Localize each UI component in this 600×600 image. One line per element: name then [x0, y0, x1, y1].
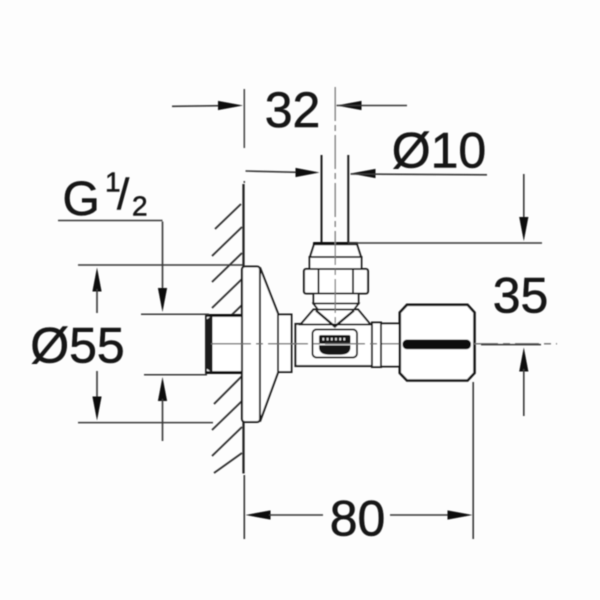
dimension 32 [172, 82, 407, 138]
nut taper [314, 304, 359, 310]
horizontal centerline left/body [211, 343, 399, 345]
svg-text:35: 35 [493, 268, 549, 324]
dimension 35 [348, 174, 548, 416]
rosette flange [242, 267, 260, 423]
handle neck [381, 324, 400, 367]
G1/2 up arrow [158, 377, 167, 441]
valve body [296, 324, 373, 366]
knob groove band [403, 340, 472, 350]
G1/2 thread top extension [141, 313, 209, 315]
G1/2 leader line [58, 221, 163, 293]
vertical centerline [334, 87, 336, 328]
G1/2 down arrow [158, 288, 167, 312]
svg-text:80: 80 [330, 491, 386, 547]
G1/2 thread bottom extension [144, 374, 207, 376]
handle knob [400, 305, 475, 381]
wall [212, 204, 242, 473]
wall face line [242, 184, 244, 474]
fitting ring [310, 257, 362, 269]
nut lower band [314, 294, 359, 304]
dimension 32 extension line (dashed, wall face plane) [243, 89, 245, 183]
horizontal centerline right of knob [474, 343, 557, 345]
valve seat V [316, 311, 354, 327]
dimension 80 [244, 382, 473, 547]
thread G1/2 tail [206, 315, 244, 373]
compression fitting top cap [310, 243, 361, 257]
dimension Ø10 [246, 123, 488, 179]
svg-text:32: 32 [265, 82, 321, 138]
rosette ring [278, 315, 292, 373]
svg-text:Ø10: Ø10 [392, 123, 487, 179]
rosette cone [260, 268, 278, 422]
compression nut [304, 269, 368, 294]
svg-text:2: 2 [132, 191, 148, 222]
dimension Ø55 [30, 265, 243, 423]
svg-text:/: / [117, 170, 130, 219]
svg-text:Ø55: Ø55 [30, 318, 125, 374]
svg-text:G: G [63, 173, 100, 226]
outlet pipe [322, 155, 349, 243]
GROHE badge [313, 330, 358, 358]
label G 1/2 [63, 167, 148, 227]
handle neck ring [372, 323, 381, 368]
body funnel skirt [301, 310, 371, 325]
